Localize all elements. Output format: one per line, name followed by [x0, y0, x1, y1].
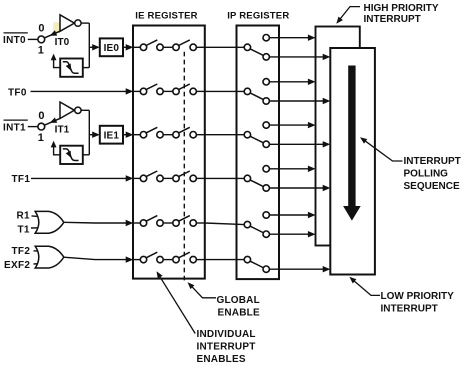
- switch IT0 pivot: [38, 36, 45, 43]
- wire IP row 1 high priority request: [269, 37, 309, 39]
- label TF2: [12, 246, 31, 257]
- flag register bit IE0: [100, 38, 123, 56]
- switch IP row 1 priority select: [244, 35, 269, 61]
- label LOW PRIORITY INTERRUPT: [381, 291, 455, 315]
- wire INT1 to switch IT1: [28, 126, 38, 128]
- label 1 (IT1 edge select): [38, 132, 44, 144]
- wire IE row 3 to IP row 3: [205, 134, 245, 136]
- edge detector (1-to-0 transition) IT0: [60, 59, 83, 77]
- wire IE0 output: [123, 46, 127, 48]
- svg-text:INT0: INT0: [3, 35, 26, 46]
- global enable ganged dashed line: [183, 52, 185, 281]
- switch IE row 1 individual enable: [140, 40, 163, 51]
- label 1 (IT0 edge select): [38, 45, 44, 57]
- wire TF1: [31, 177, 127, 179]
- arrowhead into IE0: [92, 44, 100, 50]
- label RI: [17, 210, 31, 221]
- leader to polling arrow: [360, 137, 403, 161]
- label 0 (IT0 level select): [38, 23, 44, 35]
- arrowhead row 6 low into polling box: [323, 266, 331, 272]
- wire IE row 1 segments: [133, 46, 205, 48]
- wire TF0: [31, 90, 128, 92]
- switch IE row 2 individual enable: [140, 84, 163, 95]
- wire TI input: [31, 227, 40, 229]
- wire edge detector to contact 1: [51, 54, 61, 68]
- node TF1 label: [12, 174, 31, 185]
- svg-text:R1: R1: [17, 210, 31, 221]
- leader to low priority box: [349, 277, 380, 296]
- svg-text:IT0: IT0: [55, 37, 70, 48]
- arrowhead row 5 high into polling box: [308, 212, 316, 218]
- wire to edge detector output: [83, 67, 90, 69]
- label IT1: [55, 124, 70, 135]
- svg-text:TF2: TF2: [12, 246, 31, 257]
- label HIGH PRIORITY INTERRUPT: [364, 3, 439, 25]
- wire IE row 5 segments: [133, 222, 205, 224]
- switch IE row 6 global enable: [173, 252, 197, 263]
- label GLOBAL ENABLE: [217, 295, 260, 319]
- svg-text:LOW PRIORITY: LOW PRIORITY: [381, 291, 455, 302]
- wire IE row 4 segments: [133, 177, 205, 179]
- svg-text:1: 1: [38, 45, 44, 57]
- arrowhead U2 into IE register: [126, 256, 134, 262]
- switch IE row 2 global enable: [173, 84, 197, 95]
- svg-text:ENABLE: ENABLE: [218, 308, 260, 319]
- svg-text:INTERRUPT: INTERRUPT: [381, 304, 438, 315]
- wire IP row 6 low priority request: [269, 268, 324, 270]
- IE register title: [135, 11, 197, 22]
- label EXF2: [4, 260, 30, 271]
- switch IP row 5 priority select: [244, 212, 269, 238]
- switch IE row 4 global enable: [173, 171, 197, 182]
- arrowhead IE0 into IE register: [126, 44, 134, 50]
- wire INT0 to switch IT0: [28, 38, 38, 40]
- or-gate U2 (TF2+EXF2): [35, 246, 64, 268]
- wire vertical bus: [88, 23, 90, 68]
- contact 0 arrowhead (IT0): [50, 30, 58, 35]
- wire IE1 output: [123, 134, 127, 136]
- wire IP row 3 high priority request: [269, 124, 309, 126]
- wire edge detector to contact 1: [51, 141, 61, 155]
- wire IE row 2 to IP row 2: [205, 90, 245, 92]
- or-gate U1 (RI+TI): [35, 211, 64, 233]
- wire IP row 2 high priority request: [269, 81, 309, 83]
- arrowhead TF0 into IE register: [126, 88, 134, 94]
- flag register bit IE1: [100, 126, 123, 144]
- wire IP row 3 low priority request: [269, 143, 324, 145]
- svg-text:IE1: IE1: [104, 130, 120, 141]
- wire IP row 1 low priority request: [269, 56, 324, 58]
- interrupt polling sequence arrow: [343, 66, 361, 221]
- svg-text:GLOBAL: GLOBAL: [217, 295, 260, 306]
- svg-text:INTERRUPT: INTERRUPT: [364, 14, 421, 25]
- arrowhead row 3 high into polling box: [308, 122, 316, 128]
- wire IP row 4 high priority request: [269, 168, 309, 170]
- wire IE row 5 to IP row 5: [205, 223, 245, 225]
- svg-text:0: 0: [38, 110, 44, 122]
- svg-text:TF1: TF1: [12, 174, 31, 185]
- svg-text:1: 1: [38, 132, 44, 144]
- switch IE row 6 individual enable: [140, 252, 163, 263]
- svg-text:INDIVIDUAL: INDIVIDUAL: [197, 329, 256, 340]
- node INT1 input label: [3, 120, 28, 133]
- switch IE row 3 global enable: [173, 127, 197, 138]
- IP register box: [237, 26, 280, 280]
- svg-text:ENABLES: ENABLES: [197, 354, 246, 363]
- arrowhead row 4 high into polling box: [308, 166, 316, 172]
- wire IP row 5 high priority request: [269, 214, 309, 216]
- switch IE row 1 global enable: [173, 40, 197, 51]
- wire or-gate U2 output: [64, 257, 128, 259]
- edge detector (1-to-0 transition) IT1: [60, 146, 83, 164]
- svg-text:0: 0: [38, 23, 44, 35]
- switch IT1 wiper arm: [44, 118, 60, 125]
- arrowhead row 2 low into polling box: [323, 98, 331, 104]
- buffer IT0 input stage: [60, 15, 81, 32]
- wire buffer output: [81, 22, 89, 24]
- arrowhead row 3 low into polling box: [323, 141, 331, 147]
- arrowhead TF1 into IE register: [126, 175, 134, 181]
- switch IE row 4 individual enable: [140, 171, 163, 182]
- low priority polling box: [330, 48, 375, 275]
- arrowhead U1 into IE register: [126, 220, 134, 226]
- svg-text:IE REGISTER: IE REGISTER: [135, 11, 197, 22]
- node TF0 label: [8, 87, 27, 98]
- svg-text:IE0: IE0: [104, 43, 120, 54]
- IE register box: [133, 26, 205, 279]
- svg-text:HIGH PRIORITY: HIGH PRIORITY: [364, 3, 439, 14]
- arrowhead row 1 high into polling box: [308, 35, 316, 41]
- wire vertical bus: [88, 110, 90, 155]
- switch IE row 3 individual enable: [140, 127, 163, 138]
- svg-text:INTERRUPT: INTERRUPT: [197, 341, 256, 352]
- wire IE row 1 to IP row 1: [205, 46, 245, 48]
- switch IP row 2 priority select: [244, 79, 269, 105]
- label IT0: [55, 37, 70, 48]
- wire RI input: [32, 215, 41, 218]
- svg-text:INT1: INT1: [3, 122, 26, 133]
- node INT0 input label: [3, 33, 28, 46]
- contact 0 arrowhead (IT1): [50, 118, 58, 123]
- svg-text:EXF2: EXF2: [4, 260, 30, 271]
- wire IP row 4 low priority request: [269, 187, 324, 189]
- switch IP row 4 priority select: [244, 166, 269, 192]
- switch IP row 3 priority select: [244, 122, 269, 148]
- wire IE row 6 segments: [133, 259, 205, 261]
- switch IT1 pivot: [38, 123, 45, 130]
- wire IE row 2 segments: [133, 90, 205, 92]
- switch IT0 wiper arm: [44, 31, 60, 38]
- arrowhead row 5 low into polling box: [308, 231, 316, 237]
- svg-text:T1: T1: [18, 225, 30, 236]
- wire IE row 3 segments: [133, 134, 205, 136]
- wire buffer output: [81, 109, 89, 111]
- label INDIVIDUAL INTERRUPT ENABLES: [197, 329, 256, 365]
- switch IE row 5 individual enable: [140, 216, 163, 227]
- arrowhead row 2 high into polling box: [308, 79, 316, 85]
- IP register title: [227, 11, 289, 22]
- label TI: [18, 225, 30, 236]
- svg-text:INTERRUPT: INTERRUPT: [404, 156, 461, 167]
- wire IE row 4 to IP row 4: [205, 177, 245, 179]
- wire to edge detector output: [83, 154, 90, 156]
- label 0 (IT1 level select): [38, 110, 44, 122]
- leader to individual enables: [157, 271, 196, 333]
- wire to flag IE0: [89, 46, 93, 48]
- svg-text:SEQUENCE: SEQUENCE: [404, 181, 460, 192]
- switch IE row 5 global enable: [173, 216, 197, 227]
- wire or-gate U1 output: [64, 221, 128, 224]
- svg-text:IP REGISTER: IP REGISTER: [227, 11, 289, 22]
- arrowhead row 1 low into polling box: [323, 54, 331, 60]
- arrowhead into IE1: [92, 132, 100, 138]
- wire EXF2 input: [34, 263, 41, 265]
- wire IE row 6 to IP row 6: [205, 259, 245, 261]
- wire to flag IE1: [89, 134, 93, 136]
- svg-text:TF0: TF0: [8, 87, 27, 98]
- high priority polling box: [316, 27, 360, 246]
- wire IP row 5 low priority request: [269, 233, 309, 235]
- scan highlight patch: [53, 22, 60, 33]
- leader to global enable dashed line: [188, 282, 217, 298]
- svg-text:POLLING: POLLING: [404, 168, 449, 179]
- wire TF2 input: [34, 250, 41, 252]
- buffer IT1 input stage: [60, 102, 81, 119]
- svg-text:IT1: IT1: [55, 124, 70, 135]
- wire IP row 2 low priority request: [269, 100, 324, 102]
- switch IP row 6 priority select: [244, 256, 269, 272]
- arrowhead row 4 low into polling box: [323, 185, 331, 191]
- leader to high priority box: [336, 7, 360, 24]
- arrowhead IE1 into IE register: [126, 132, 134, 138]
- label INTERRUPT POLLING SEQUENCE: [404, 156, 461, 192]
